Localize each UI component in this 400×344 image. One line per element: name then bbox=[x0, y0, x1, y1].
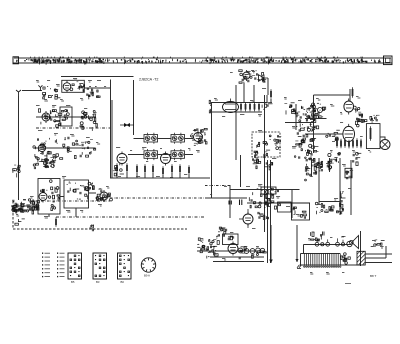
bandswitch parts 2b bbox=[77, 185, 89, 199]
scale lamp 1 bbox=[238, 248, 243, 253]
IF amp tube V5 bbox=[161, 152, 171, 166]
cathode resistor c2 bbox=[340, 139, 342, 149]
top strip lower edge bbox=[13, 62, 392, 64]
detector resistor rd1 bbox=[240, 102, 242, 111]
avc bypass part bbox=[15, 219, 25, 225]
box link wire bbox=[60, 193, 96, 197]
bias resistor r4 bbox=[144, 164, 146, 174]
legend column 1 bbox=[42, 253, 50, 278]
mains lead 3 bbox=[365, 262, 392, 264]
valve heater circle 2 bbox=[321, 243, 324, 246]
driver grid parts bbox=[306, 103, 326, 118]
detector lower parts bbox=[258, 207, 269, 219]
af coupling vertical bbox=[295, 104, 297, 130]
converter tube V6 bbox=[194, 131, 203, 144]
aux wire down bbox=[296, 225, 298, 262]
decoupling part bbox=[90, 224, 94, 231]
FM det parts C bbox=[72, 139, 95, 159]
bias resistor r9 bbox=[188, 165, 190, 175]
wire from tuner down bbox=[133, 80, 135, 135]
antenna down-lead bbox=[18, 96, 20, 200]
round tube socket view bbox=[141, 258, 155, 278]
AF top parts bbox=[252, 158, 272, 170]
IF can top leads bbox=[134, 138, 194, 140]
bandswitch parts 1b bbox=[41, 180, 59, 194]
speaker cone side view bbox=[349, 236, 358, 249]
electrolytic row c bbox=[353, 152, 362, 165]
cathode resistor c1 bbox=[336, 138, 338, 148]
row2 wire bbox=[36, 116, 96, 118]
HT wire down bbox=[270, 225, 272, 263]
PSU switch parts bbox=[210, 240, 219, 256]
coil chain wire2 bbox=[11, 209, 38, 211]
IF transformer S2 top bbox=[171, 133, 185, 144]
FM tuner interior parts bbox=[70, 81, 85, 92]
driver input parts bbox=[312, 109, 318, 118]
AM det parts bbox=[284, 103, 297, 115]
AVC return dashed bbox=[13, 228, 187, 230]
psu vertical a bbox=[311, 158, 313, 176]
heater cap b bbox=[323, 232, 325, 236]
dropper resistor bbox=[55, 217, 57, 227]
bandswitch box 1 bbox=[38, 179, 60, 215]
det out wire bbox=[285, 122, 314, 124]
bus wire x211 bbox=[211, 102, 213, 198]
AF wire mid bbox=[205, 197, 247, 199]
svg-text:B8 T: B8 T bbox=[370, 274, 376, 278]
IF transformer S1 top bbox=[144, 133, 158, 144]
tube socket view B2 bbox=[93, 253, 107, 284]
svg-text:2J82CA -T2: 2J82CA -T2 bbox=[139, 78, 158, 82]
rectifier parts bbox=[315, 202, 328, 214]
FM det parts A bbox=[33, 138, 51, 158]
scale lamp 2 bbox=[244, 249, 249, 254]
AM osc parts A bbox=[254, 142, 270, 158]
AGC dash-dot line 3 bbox=[205, 185, 231, 187]
svg-text:B3: B3 bbox=[96, 280, 100, 284]
detector resistor rd5 bbox=[258, 102, 260, 111]
bleeder resistor bbox=[340, 191, 342, 200]
mains transformer box bbox=[223, 234, 239, 245]
mains parts bbox=[329, 206, 334, 212]
AGC dash-dot line 2 bbox=[110, 197, 231, 199]
cathode resistor c7 bbox=[360, 139, 362, 149]
IF strip wire bbox=[128, 154, 193, 156]
detector resistor rd2 bbox=[245, 102, 247, 111]
coupling cap parts bbox=[357, 114, 363, 122]
mixer row wire bbox=[84, 87, 110, 89]
oscillator coil pack bbox=[33, 156, 55, 169]
psu bottom wire bbox=[213, 261, 264, 263]
FM IF tube V2 bbox=[42, 111, 50, 123]
diode pair bbox=[120, 123, 134, 127]
bias resistor r2 bbox=[126, 163, 128, 173]
voltage selector bbox=[371, 240, 385, 247]
electrolytic row b bbox=[328, 152, 341, 163]
cathode resistor c6 bbox=[356, 138, 358, 148]
footer part number bbox=[345, 282, 351, 285]
bias resistor r6 bbox=[162, 166, 164, 176]
antenna symbol bbox=[38, 85, 42, 91]
box2 drop wire bbox=[75, 208, 77, 217]
speaker wire bbox=[380, 137, 385, 145]
grid wire bbox=[305, 117, 327, 119]
IF transformer S2 bottom bbox=[171, 149, 185, 160]
tag strip pins bbox=[304, 253, 341, 267]
AF box top bbox=[230, 189, 300, 191]
coil box bbox=[60, 107, 72, 126]
bus wire center C bbox=[267, 160, 269, 263]
anode load resistor bbox=[352, 87, 354, 98]
ground tag bbox=[297, 265, 302, 269]
scale lamp 5 bbox=[260, 248, 264, 252]
detector resistor rd4 bbox=[254, 102, 256, 111]
top strip right end box bbox=[384, 56, 393, 65]
coupling cap Ca bbox=[229, 201, 231, 205]
svg-text:B5: B5 bbox=[71, 280, 75, 284]
bleeder parts bbox=[340, 191, 346, 207]
psu vertical c bbox=[328, 158, 330, 172]
psu cross wire bbox=[319, 201, 340, 203]
output transformer box bbox=[366, 124, 380, 149]
heater wire 1 bbox=[197, 250, 264, 252]
cathode resistor c3 bbox=[344, 138, 346, 148]
fuse parts bbox=[336, 208, 343, 214]
detector caps bbox=[262, 102, 272, 109]
choke parts bbox=[346, 170, 353, 179]
FM tuner box bbox=[62, 80, 85, 92]
dashed box AM osc bbox=[252, 132, 280, 157]
valve heater circle 4 bbox=[336, 242, 340, 246]
HT arrow bbox=[269, 260, 273, 264]
heater chain wire bbox=[304, 243, 351, 245]
coil chain wire bbox=[11, 205, 38, 207]
osc tube V10 bbox=[39, 191, 47, 203]
bus wire center D bbox=[270, 160, 272, 263]
heater resistor a bbox=[312, 232, 314, 237]
tube socket view B1 bbox=[68, 253, 82, 284]
AF wire low bbox=[247, 202, 310, 204]
component value labels bbox=[16, 72, 384, 274]
bias resistor r8 bbox=[179, 164, 181, 174]
bus wire vertical B bbox=[111, 100, 113, 178]
dial strip markings bbox=[17, 57, 381, 65]
left edge parts bbox=[13, 165, 21, 178]
svg-text:B9 A: B9 A bbox=[144, 274, 150, 278]
wire det to AF bbox=[267, 95, 271, 103]
magic eye tube EM bbox=[243, 212, 253, 226]
magic eye leads bbox=[239, 209, 248, 228]
FM IF output parts bbox=[80, 110, 97, 130]
output misc parts bbox=[356, 119, 367, 127]
mixer grid parts bbox=[96, 188, 112, 201]
limiter tube V7 bbox=[243, 70, 250, 81]
top strip upper edge bbox=[14, 57, 391, 59]
top strip left end box bbox=[13, 57, 19, 64]
tuner unit top edge bbox=[61, 76, 134, 78]
bandswitch box 2 bbox=[64, 180, 89, 208]
IF row drops bbox=[117, 172, 189, 178]
FM tuner tube V1 bbox=[63, 81, 71, 93]
FM IF stage parts bbox=[38, 109, 61, 127]
tag strip bottom bbox=[300, 264, 360, 266]
tag strip left edge bbox=[300, 253, 302, 264]
bias resistor r7 bbox=[171, 164, 173, 174]
output top wire bbox=[314, 94, 351, 96]
smoothing caps bbox=[306, 158, 320, 176]
tube socket view B3 bbox=[118, 253, 132, 284]
mains transformer hatched bbox=[357, 251, 365, 265]
mixer tube V11 bbox=[100, 190, 108, 202]
detector resistor rd3 bbox=[249, 102, 251, 111]
cathode resistor c5 bbox=[352, 139, 354, 149]
output grid wire bbox=[305, 133, 343, 135]
bandswitch parts 2a bbox=[67, 182, 80, 193]
psu vertical e bbox=[350, 160, 352, 215]
driver anode parts bbox=[353, 106, 362, 116]
svg-text:B0: B0 bbox=[121, 280, 125, 284]
primary resistor bbox=[370, 126, 372, 141]
bus wire center B bbox=[264, 95, 266, 232]
bus wire center A bbox=[235, 85, 237, 160]
wire limiter down bbox=[244, 78, 268, 103]
detector row bottom wire bbox=[211, 111, 262, 113]
IF transformer S1 bottom bbox=[144, 149, 158, 160]
output left vertical bbox=[313, 95, 315, 153]
bandswitch parts 1 bbox=[48, 195, 60, 211]
AF vertical bbox=[229, 185, 231, 218]
AF driver tube V8 bbox=[344, 99, 354, 115]
PSU left parts bbox=[197, 238, 217, 259]
aux arrow bbox=[295, 259, 298, 262]
legend column 2 bbox=[57, 253, 65, 278]
mains lead 1 bbox=[365, 253, 392, 255]
coil box parts bbox=[61, 110, 69, 126]
AF preamp parts bbox=[296, 103, 315, 132]
volume control box bbox=[261, 187, 276, 194]
FM mixer parts bbox=[87, 87, 100, 100]
tone parts bbox=[293, 207, 306, 219]
demod diode arrow bbox=[259, 75, 269, 82]
speaker LS bbox=[380, 137, 390, 150]
bias resistor r1 bbox=[116, 163, 118, 173]
mains lead 2 bbox=[365, 257, 386, 259]
scale lamp 4 bbox=[256, 248, 261, 253]
FM det parts B bbox=[53, 137, 72, 160]
tag strip top bbox=[301, 252, 340, 254]
antenna lead wire bbox=[22, 90, 42, 92]
bias resistor r5 bbox=[152, 164, 154, 174]
smoothing caps 3 bbox=[327, 159, 333, 170]
ratio detector transformer bbox=[223, 102, 239, 113]
lamp feed down bbox=[303, 245, 305, 254]
detector row top wire bbox=[211, 102, 267, 104]
tuning coil chain bbox=[12, 199, 39, 214]
phase splitter parts bbox=[326, 130, 340, 141]
cathode resistor c4 bbox=[348, 140, 350, 149]
coupling cap Cb bbox=[240, 200, 242, 206]
scale lamp 3 bbox=[250, 249, 255, 254]
tube heptode V3 bbox=[38, 142, 45, 153]
dipole antenna bbox=[16, 90, 21, 96]
driver anode wire bbox=[349, 89, 351, 101]
AM osc parts B bbox=[269, 135, 281, 150]
coupling parts bbox=[88, 182, 94, 189]
left IF bottom bus bbox=[110, 177, 210, 179]
IF decoupling parts bbox=[113, 163, 124, 176]
resistor top bbox=[270, 89, 272, 99]
indicator lamp bbox=[318, 108, 323, 113]
pilot lamp big bbox=[347, 241, 352, 246]
filter resistors bbox=[341, 253, 351, 265]
tone box bbox=[292, 203, 310, 220]
psu vertical d bbox=[339, 158, 341, 215]
det feed vertical bbox=[240, 155, 242, 187]
lamp label bbox=[341, 236, 344, 239]
choke box bbox=[345, 168, 352, 178]
feedback parts bbox=[370, 115, 380, 122]
AVC vertical dashed bbox=[12, 201, 14, 229]
IF amp tube V4 bbox=[117, 152, 127, 166]
PSU top parts2 bbox=[216, 231, 233, 244]
bias resistor r3 bbox=[136, 164, 138, 174]
detector diode cluster bbox=[249, 188, 280, 209]
dash-dot line row2 bbox=[36, 127, 110, 129]
filter box 2 bbox=[278, 202, 292, 212]
heater taps bbox=[317, 238, 343, 242]
valve heater circle 1 bbox=[315, 242, 319, 246]
rectifier tube AZ bbox=[228, 242, 238, 256]
selector lead bbox=[385, 246, 387, 258]
limiter parts bbox=[239, 70, 266, 84]
AF vertical 2 bbox=[291, 189, 293, 218]
ratio det internal bbox=[225, 99, 236, 110]
dial lamp parts top bbox=[310, 232, 321, 241]
heater wire 2 bbox=[210, 256, 264, 258]
RF input network bbox=[43, 86, 61, 99]
valve heater circle 3 bbox=[326, 242, 330, 246]
driver bias parts bbox=[311, 118, 319, 129]
bus wire vertical A bbox=[110, 80, 112, 178]
valve heater circle 5 bbox=[341, 243, 344, 246]
B+ dash-dot bbox=[56, 216, 205, 218]
box1 drop wire bbox=[48, 214, 50, 217]
left det caps bbox=[209, 100, 211, 113]
band filter parts bbox=[294, 132, 316, 159]
psu top parts bbox=[219, 227, 226, 231]
PSU lamp row parts bbox=[239, 247, 266, 259]
row3 wire bbox=[34, 147, 95, 149]
AGC dash-dot line bbox=[30, 200, 110, 202]
cone frame wire bbox=[360, 231, 362, 266]
smoothing caps 2 bbox=[315, 161, 323, 171]
converter cluster bbox=[190, 128, 207, 145]
electrolytic row a bbox=[305, 150, 318, 162]
psu vertical b bbox=[318, 158, 320, 205]
right edge parts mid bbox=[305, 166, 313, 181]
output tube V9 bbox=[343, 124, 355, 144]
